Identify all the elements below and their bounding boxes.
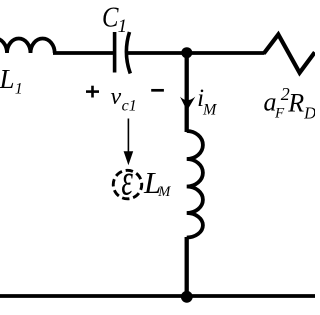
svg-text:1: 1	[118, 16, 128, 37]
node A top junction	[181, 47, 192, 58]
node B bottom junction	[181, 291, 193, 303]
label LM	[143, 165, 171, 200]
svg-text:c1: c1	[122, 97, 137, 114]
wire node A down to LM	[185, 53, 189, 132]
label L1	[0, 64, 23, 97]
resistor aF^2 RD	[264, 35, 315, 73]
label + vc1 -	[86, 84, 164, 114]
svg-text:M: M	[202, 101, 218, 118]
wire node A to resistor	[187, 51, 265, 55]
capacitor C1	[115, 32, 131, 74]
arrow vc1 to epsilon	[124, 119, 134, 166]
label C1	[102, 1, 127, 37]
EMF source epsilon dashed circle	[113, 170, 142, 199]
svg-text:ε: ε	[121, 157, 133, 205]
inductor L1	[0, 39, 55, 54]
svg-text:L: L	[0, 64, 15, 94]
label iM	[197, 85, 218, 118]
inductor LM	[187, 131, 203, 238]
wire L1 to C1	[53, 51, 114, 55]
wire LM to node B	[185, 237, 189, 297]
svg-text:v: v	[111, 84, 122, 110]
svg-text:F: F	[274, 105, 285, 121]
bottom bus wire	[0, 294, 315, 298]
svg-text:M: M	[157, 184, 171, 200]
wire C1 to node A	[127, 51, 188, 55]
svg-text:R: R	[287, 89, 304, 118]
current arrow iM	[180, 97, 195, 111]
label aF2RD	[264, 84, 317, 123]
svg-text:D: D	[303, 103, 315, 122]
svg-text:1: 1	[15, 80, 23, 97]
